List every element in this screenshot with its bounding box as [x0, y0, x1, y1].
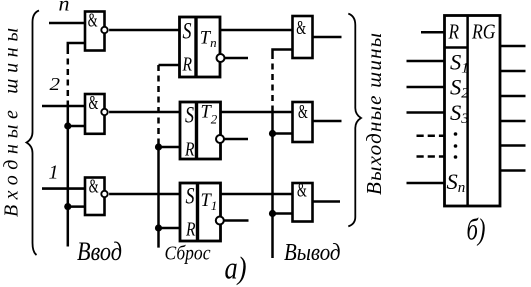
svg-text:&: &: [298, 102, 308, 123]
ellipsis dots: [454, 132, 458, 159]
T2 inverse output bubble: [216, 135, 224, 143]
wire Сброс to T2 R: [159, 146, 181, 149]
Tn inverse output bubble: [217, 54, 225, 62]
wire D1 out to Tn S: [109, 29, 179, 32]
svg-text:RG: RG: [471, 19, 495, 43]
wire Вывод branch to gate D5: [273, 132, 293, 135]
wire input 1: [42, 187, 85, 190]
wire Sn input: [407, 182, 445, 185]
svg-text:R: R: [182, 55, 192, 76]
wire D3 out to T1 S: [109, 193, 180, 196]
T1 inverse output bubble: [216, 217, 224, 225]
svg-text:S: S: [183, 19, 192, 44]
svg-text:S: S: [186, 184, 195, 209]
svg-text:1: 1: [49, 162, 59, 184]
AND gate D6 (output 1): [293, 181, 313, 222]
wire T2 inverse out stub: [224, 138, 248, 141]
svg-text:Сброс: Сброс: [165, 243, 211, 265]
junction Вывод/D5: [269, 130, 276, 137]
wire D2 out to T2 S: [109, 111, 180, 114]
svg-text:Выходные шины: Выходные шины: [362, 33, 386, 195]
flip-flop T1: [180, 183, 221, 241]
wire T1 inverse out stub: [224, 219, 249, 222]
wire D6 out: [313, 200, 341, 203]
wire Сброс solid segment: [157, 143, 160, 248]
wire R input: [421, 31, 444, 34]
svg-text:&: &: [89, 177, 99, 198]
svg-text:&: &: [297, 181, 307, 202]
wire Вывод corner to gate D4: [273, 50, 293, 54]
wire dashed input 1: [417, 134, 445, 137]
wire S1 input: [407, 60, 445, 63]
wire Сброс to Tn R: [159, 64, 180, 67]
wire Tn inverse out stub: [225, 57, 249, 60]
junction Ввод/D2: [64, 122, 71, 129]
junction Ввод/D3: [64, 203, 71, 210]
flip-flop T2: [180, 102, 221, 160]
wire T2 Q out: [221, 111, 293, 114]
wire S2 input: [407, 86, 445, 89]
wire input n: [49, 22, 85, 25]
svg-text:2: 2: [50, 74, 61, 94]
wire Ввод solid segment: [67, 102, 70, 247]
svg-text:&: &: [89, 93, 99, 114]
wire Вывод solid segment: [271, 108, 274, 258]
wire Tn Q out: [221, 29, 293, 32]
left brace: [27, 11, 40, 256]
wire T1 Q out: [221, 193, 293, 196]
svg-text:а): а): [225, 251, 247, 286]
AND gate D5 (output 2): [293, 102, 313, 142]
wire output 1: [500, 45, 526, 48]
register RG box: [445, 16, 501, 207]
AND gate D4 (output n): [293, 16, 313, 58]
NAND gate D2 (input 2): [85, 93, 108, 134]
wire Вывод branch to gate D6: [273, 212, 293, 215]
flip-flop Tn: [180, 17, 221, 77]
svg-text:б): б): [467, 212, 486, 247]
wire output 3: [500, 95, 526, 98]
wire Ввод branch to gate D2: [68, 125, 85, 128]
wire Вывод dashed segment: [271, 53, 274, 108]
wire D4 out: [313, 36, 342, 39]
svg-text:&: &: [296, 18, 306, 39]
wire dashed input 2: [417, 155, 445, 158]
svg-text:R: R: [448, 19, 459, 43]
wire D5 out: [313, 120, 342, 123]
svg-text:R: R: [184, 139, 194, 160]
wire Сброс to T1 R: [159, 227, 181, 230]
wire output 6: [500, 169, 526, 172]
right brace: [348, 14, 361, 227]
wire S3 input: [407, 111, 445, 114]
wire Сброс dashed segment: [157, 65, 160, 143]
junction Вывод/D6: [269, 210, 276, 217]
wire Ввод dashed segment: [67, 48, 70, 102]
wire output 4: [500, 120, 526, 123]
wire output 5: [500, 144, 526, 147]
svg-text:Ввод: Ввод: [77, 236, 122, 266]
wire input 2: [42, 105, 85, 108]
wire Ввод branch to gate D3: [68, 205, 85, 208]
wire Ввод corner to gate D1: [68, 43, 85, 48]
wire output 2: [500, 70, 526, 73]
NAND gate D3 (input 1): [85, 177, 108, 216]
NAND gate D1 (input n): [85, 11, 108, 51]
junction Сброс/T1: [155, 224, 162, 231]
svg-text:R: R: [185, 219, 195, 240]
svg-text:n: n: [59, 0, 70, 16]
svg-text:Вывод: Вывод: [284, 239, 341, 266]
svg-text:S: S: [185, 102, 194, 127]
svg-text:&: &: [88, 11, 98, 32]
junction Сброс/T2: [155, 143, 162, 150]
